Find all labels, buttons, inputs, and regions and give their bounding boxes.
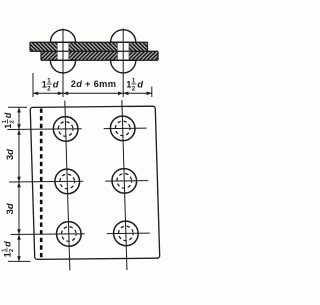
svg-text:d: d [2, 241, 12, 247]
svg-text:1: 1 [42, 80, 47, 90]
svg-text:3d: 3d [5, 203, 15, 214]
svg-text:2: 2 [9, 249, 15, 252]
svg-text:d: d [53, 80, 59, 90]
svg-text:1: 1 [126, 80, 131, 90]
svg-text:d: d [137, 80, 143, 90]
svg-text:2: 2 [47, 86, 51, 93]
svg-text:2: 2 [132, 86, 136, 93]
svg-text:3d: 3d [5, 149, 15, 160]
svg-text:2: 2 [10, 120, 16, 123]
svg-text:2d + 6mm: 2d + 6mm [71, 79, 117, 89]
svg-text:d: d [3, 112, 13, 118]
